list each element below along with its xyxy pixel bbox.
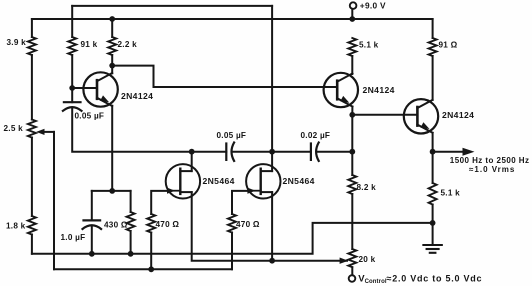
resistor 5.1k right [429, 183, 437, 205]
junction 8.2k node [349, 149, 355, 155]
wire 470a to bottom wire [150, 233, 152, 270]
label 430 ohm [104, 221, 128, 230]
label 2N4124 (Q4) [442, 110, 474, 120]
resistor 1.8k [28, 216, 36, 235]
svg-text:470 Ω: 470 Ω [156, 220, 180, 229]
junction Q1 collector node [109, 63, 115, 69]
terminal +9.0V [350, 2, 357, 19]
resistor 2.2k [108, 37, 116, 55]
wire wiper bottom bus [54, 268, 232, 270]
label 470 ohm (a) [156, 220, 180, 229]
svg-text:2.5 k: 2.5 k [4, 124, 24, 133]
wire C4 lead [91, 191, 93, 221]
wire top feedback (91k top to node C) [72, 5, 272, 7]
wire collector node to Q3 base [112, 66, 337, 87]
wire 20k to Vcontrol [351, 267, 353, 275]
JFET J2 2N5464 [246, 164, 280, 198]
wire 1.8k to ground bus [31, 235, 33, 254]
label 2N5464 (J1) [203, 176, 235, 186]
wire 470b to bottom wire [231, 233, 233, 270]
label 91 ohm [439, 41, 458, 50]
wire J2 gate to 470b [232, 191, 248, 214]
svg-text:5.1 k: 5.1 k [441, 189, 461, 198]
wire +9V power rail [32, 18, 433, 20]
wire J1 source [192, 192, 347, 261]
label 5.1 k (right) [441, 189, 461, 198]
label 2.2 k [118, 40, 138, 49]
resistor 8.2k [348, 175, 356, 194]
wire Q1 emitter [111, 106, 113, 191]
wire 91k to Q1 base node [71, 55, 73, 88]
wire 430 top lead [130, 191, 132, 212]
junction node A [109, 188, 115, 194]
label 2N4124 (Q1) [121, 91, 153, 101]
wire C2 to C3 [232, 151, 311, 153]
label 0.02 uF (C3) [301, 131, 331, 140]
junction Q3 emitter node [349, 112, 355, 118]
wire rail to 2.2k [111, 19, 113, 37]
label 5.1 k (top) [359, 41, 379, 50]
wire J2 source [271, 192, 273, 261]
svg-text:2.2 k: 2.2 k [118, 40, 138, 49]
svg-text:0.05 µF: 0.05 µF [217, 131, 247, 140]
JFET J1 2N5464 [166, 164, 200, 198]
label 1.0 uF [61, 233, 86, 242]
transistor Q3 2N4124 [324, 73, 358, 107]
capacitor C4 1.0uF [83, 220, 102, 229]
wire C4 to ground bus [91, 226, 93, 254]
wire 2.5k to 1.8k [31, 138, 33, 217]
terminal Vcontrol [349, 275, 356, 282]
svg-text:2N5464: 2N5464 [283, 176, 315, 186]
resistor 91k [68, 37, 76, 55]
svg-text:2N5464: 2N5464 [203, 176, 235, 186]
svg-text:0.02 µF: 0.02 µF [301, 131, 331, 140]
svg-text:Control: Control [365, 279, 387, 285]
wire J2 drain [271, 152, 273, 171]
svg-text:91 Ω: 91 Ω [439, 41, 458, 50]
capacitor C1 0.05uF [63, 102, 82, 111]
junction J2 drain node [269, 149, 275, 155]
wire ground bus [32, 223, 433, 254]
capacitor C3 0.02uF [311, 143, 319, 161]
label 0.05 uF (C1) [75, 111, 105, 120]
wire rail to 3.9k [31, 19, 33, 37]
label 2N5464 (J2) [283, 176, 315, 186]
resistor 470a [147, 214, 155, 233]
wire node A [92, 190, 131, 192]
resistor 3.9k [28, 37, 36, 55]
resistor 430 [127, 212, 135, 231]
svg-text:1.8 k: 1.8 k [6, 222, 26, 231]
label 2N4124 (Q3) [363, 85, 395, 95]
wire Q4 emitter [432, 133, 434, 152]
svg-text:20 k: 20 k [359, 255, 376, 264]
svg-text:1.0 µF: 1.0 µF [61, 233, 86, 242]
wire J1 gate to 470a [151, 191, 167, 214]
wire rail to 91ohm [432, 19, 434, 38]
wire C1 to node wire [72, 108, 192, 152]
svg-text:2N4124: 2N4124 [121, 91, 153, 101]
wire base node to Q1 [72, 87, 97, 89]
transistor Q1 2N4124 [83, 72, 117, 106]
wire output to 5.1k [432, 152, 434, 183]
wire Q3 emitter [351, 107, 353, 115]
wire feedback right drop [271, 6, 273, 152]
svg-text:5.1 k: 5.1 k [359, 41, 379, 50]
junction ground bus right [430, 220, 436, 226]
label +9.0 V [360, 0, 386, 10]
label 0.05 uF (C2) [217, 131, 247, 140]
resistor 5.1k top [348, 38, 356, 56]
output arrow [433, 148, 475, 156]
svg-text:430 Ω: 430 Ω [104, 221, 128, 230]
junction 470a bottom [148, 266, 154, 272]
wire 8.2k to 20k [351, 194, 353, 249]
label output level [469, 165, 515, 174]
label 2.5 k [4, 124, 24, 133]
junction 430 ground [128, 251, 134, 257]
junction output node [430, 149, 436, 155]
svg-text:≈2.0 Vdc to 5.0 Vdc: ≈2.0 Vdc to 5.0 Vdc [387, 273, 483, 283]
svg-text:≈1.0 Vrms: ≈1.0 Vrms [469, 165, 515, 174]
svg-text:470 Ω: 470 Ω [236, 220, 260, 229]
svg-text:+9.0 V: +9.0 V [360, 0, 386, 10]
wire node A segment to C2 [192, 151, 227, 153]
pot wiper 2.5k [36, 129, 54, 269]
label 1.8 k [6, 222, 26, 231]
svg-text:2N4124: 2N4124 [442, 110, 474, 120]
label output frequency [450, 156, 530, 165]
label 20 k [359, 255, 376, 264]
junction +9V rail [349, 16, 355, 22]
svg-text:91 k: 91 k [81, 40, 98, 49]
wire J1 drain [191, 152, 193, 171]
svg-text:0.05 µF: 0.05 µF [75, 111, 105, 120]
pot wiper 20k arrow [340, 258, 349, 264]
junction C4 ground [89, 251, 95, 257]
wire base node to C1 [71, 88, 73, 102]
wire Q1 collector riser [111, 66, 113, 74]
wire Q3e down to 8.2k [351, 115, 353, 175]
potentiometer 2.5k [28, 120, 36, 138]
junction J1 drain node [189, 149, 195, 155]
label 8.2 k [357, 183, 377, 192]
junction rail 2.2k [109, 16, 115, 22]
ground symbol [423, 245, 441, 253]
resistor 470b [228, 214, 236, 233]
svg-text:3.9 k: 3.9 k [7, 38, 27, 47]
wire 91ohm to Q4 collector [432, 56, 434, 100]
resistor 91ohm [429, 38, 437, 56]
wire 2.2k to Q1 collector [111, 55, 113, 66]
wire 3.9k to 2.5k [31, 55, 33, 120]
transistor Q4 2N4124 [404, 99, 438, 133]
junction Q1 base node [69, 85, 75, 91]
label 470 ohm (b) [236, 220, 260, 229]
label 3.9 k [7, 38, 27, 47]
wire 5.1k to Q3 collector [351, 56, 353, 74]
wire 5.1k to ground [432, 205, 434, 246]
junction J2 source [269, 258, 275, 264]
svg-text:8.2 k: 8.2 k [357, 183, 377, 192]
potentiometer 20k [348, 249, 356, 267]
wire feedback to 91k [71, 6, 73, 37]
wire Q3e to Q4 base [352, 114, 417, 116]
label Vcontrol [358, 273, 482, 285]
label 91 k [81, 40, 98, 49]
wire C3 to 8.2k node [317, 151, 353, 153]
svg-text:2N4124: 2N4124 [363, 85, 395, 95]
capacitor C2 0.05uF [226, 143, 234, 161]
wire 430 to ground bus [130, 231, 132, 254]
